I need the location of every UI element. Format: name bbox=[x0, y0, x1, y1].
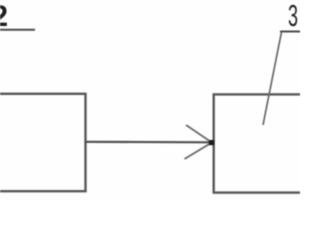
wire (arrow shaft between boxes) bbox=[85, 141, 211, 144]
svg-text:2: 2 bbox=[0, 0, 8, 33]
block 1 (left process box, cut off at left edge) bbox=[0, 94, 86, 191]
underline of label 3 bbox=[280, 31, 301, 33]
node (arrow tip dot on box edge) bbox=[209, 140, 214, 145]
leader line from label 3 into right box bbox=[263, 32, 282, 125]
underline of label 2 bbox=[0, 29, 35, 31]
arrowhead lower barb bbox=[185, 143, 212, 159]
arrowhead upper barb bbox=[186, 125, 212, 142]
svg-text:3: 3 bbox=[288, 0, 298, 33]
block 2 (right process box, cut off at right edge) bbox=[214, 94, 309, 192]
